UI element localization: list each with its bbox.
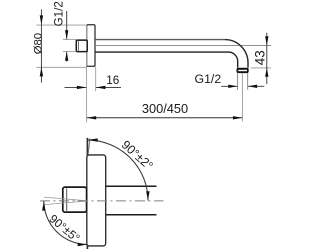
top view: G1/2 wall fitting square: [76, 40, 87, 52]
dimension Ø80: dimension line: [40, 10, 42, 83]
top view: wall flange escutcheon: [87, 25, 95, 67]
bottom view: tolerance wedge line upper: [44, 197, 87, 201]
dimension 16: dimension line right tail: [96, 86, 121, 88]
bottom view: wall line: [86, 138, 88, 249]
bottom view: flange disk: [87, 155, 106, 246]
svg-text:G1/2: G1/2: [195, 72, 222, 86]
bottom view: tube top contour: [106, 185, 157, 187]
dimension 16: arrow left: [77, 86, 87, 89]
svg-text:90°±2°: 90°±2°: [119, 138, 156, 173]
dimension Ø80: arrow bottom: [40, 67, 43, 76]
dimension 16: extension line right: [95, 67, 97, 92]
svg-text:G1/2: G1/2: [53, 1, 66, 26]
dimension 300/450: arrow right: [233, 116, 242, 119]
dimension 16: dimension line left tail: [65, 86, 87, 88]
svg-text:300/450: 300/450: [142, 101, 188, 116]
outlet centerline extension: [241, 73, 243, 121]
dimension 300/450: arrow left: [87, 116, 96, 119]
bottom view: G1/2 fitting square: [63, 187, 87, 212]
top view: arm tube bottom contour: [95, 51, 229, 53]
top view: bend inner contour: [229, 52, 238, 68]
angle dimension 90°±5°: arrow at wall: [78, 243, 87, 246]
dimension 43: arrow bottom: [265, 68, 268, 77]
dimension Ø80: extension line bottom: [36, 66, 86, 68]
bottom view: centerline (dash-dot): [40, 200, 164, 202]
top view: outlet thread band: [237, 68, 249, 73]
dimension G1/2 outlet: extension line left: [237, 73, 239, 90]
dimension G1/2 wall: arrow bottom: [65, 52, 68, 61]
top view: arm tube mid highlight line: [95, 45, 271, 47]
dimension G1/2 outlet: dimension line left: [221, 85, 237, 87]
angle dimension 90°±5°: arrow at centerline: [42, 201, 45, 210]
svg-text:90°±5°: 90°±5°: [46, 212, 82, 246]
dimension Ø80: arrow top: [40, 15, 43, 24]
bottom view: tolerance wedge line top: [88, 138, 90, 155]
svg-text:Ø80: Ø80: [32, 33, 44, 54]
bottom view: tube bottom contour: [106, 214, 157, 216]
top view: bend outer contour: [225, 40, 248, 68]
angle dimension 90°±2°: arrow at wall: [88, 138, 98, 141]
dimension 16: arrow right: [96, 86, 106, 89]
dimension G1/2 wall: arrow top: [65, 30, 68, 39]
dimension 43: dimension line: [266, 33, 268, 84]
angle dimension 90°±2°: arc: [88, 140, 148, 200]
dimension G1/2 outlet: arrow right: [248, 85, 257, 88]
dimension G1/2 wall: extension line top: [63, 38, 77, 40]
angle dimension 90°±5°: arc: [44, 201, 88, 245]
dimension 43: extension line bottom: [251, 67, 271, 69]
dimension G1/2 outlet: arrow left: [228, 85, 237, 88]
dimension G1/2 wall: dimension line lower: [66, 52, 68, 62]
dimension G1/2 outlet: dimension line right: [248, 85, 264, 87]
dimension G1/2 wall: extension line bottom: [63, 51, 77, 53]
dimension 16: extension line left (shared with 300/450): [86, 67, 88, 123]
dimension 43: arrow top: [265, 36, 268, 45]
dimension Ø80: extension line top: [36, 24, 86, 26]
svg-text:16: 16: [106, 74, 119, 87]
top view: arm tube top contour: [95, 39, 225, 41]
svg-text:43: 43: [253, 50, 268, 65]
bottom view: tolerance wedge line lower: [44, 201, 87, 205]
dimension 300/450: dimension line: [87, 117, 243, 119]
dimension G1/2 wall: dimension line upper: [66, 11, 68, 39]
dimension G1/2 outlet: extension line right: [247, 73, 249, 90]
angle dimension 90°±2°: arrow at centerline: [146, 191, 149, 200]
